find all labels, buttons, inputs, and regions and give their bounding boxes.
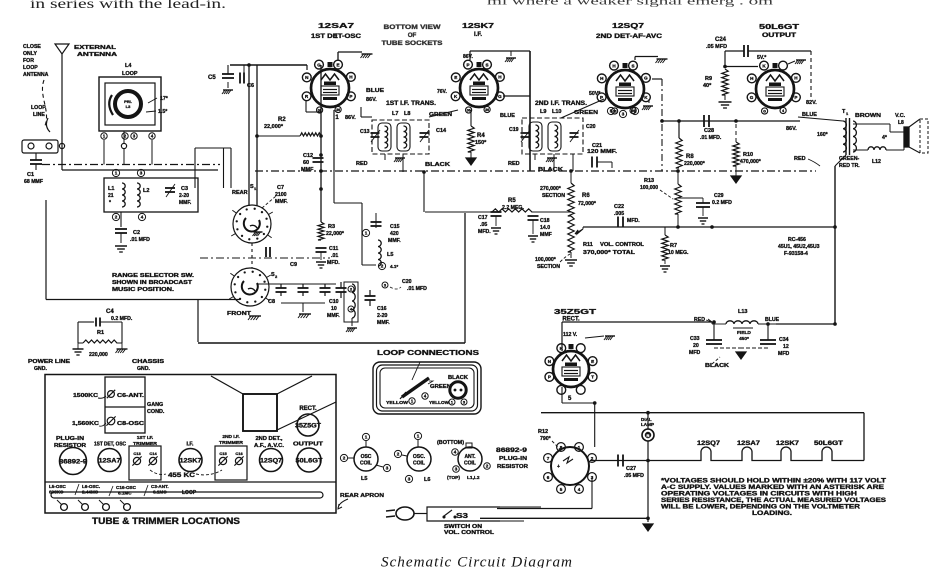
svg-text:RECT.: RECT. (299, 406, 317, 412)
svg-text:TRIMMER: TRIMMER (219, 440, 244, 446)
svg-text:420: 420 (390, 231, 399, 237)
svg-text:OPERATING VOLTAGES IN CIRCUITS: OPERATING VOLTAGES IN CIRCUITS WITH HIGH (661, 492, 857, 498)
svg-text:2: 2 (591, 456, 594, 461)
svg-text:S3: S3 (456, 513, 468, 520)
svg-text:BOTTOM VIEW: BOTTOM VIEW (384, 24, 442, 31)
svg-text:RED: RED (508, 161, 520, 167)
svg-text:L5-OSC: L5-OSC (49, 484, 67, 489)
svg-text:SHOWN IN BROADCAST: SHOWN IN BROADCAST (112, 280, 193, 286)
svg-text:G: G (750, 95, 754, 100)
svg-text:2: 2 (275, 274, 278, 279)
svg-text:.05 MFD: .05 MFD (706, 44, 727, 50)
svg-text:R2: R2 (278, 117, 286, 123)
svg-text:86V.: 86V. (366, 97, 377, 103)
svg-text:P: P (466, 62, 469, 67)
svg-text:R12: R12 (538, 429, 548, 435)
svg-text:K: K (560, 346, 564, 351)
svg-text:4*: 4* (882, 135, 888, 141)
svg-text:R1: R1 (97, 330, 104, 336)
svg-text:L6-OSC.: L6-OSC. (82, 484, 100, 489)
svg-text:5V.*: 5V.* (757, 55, 767, 61)
svg-text:C28: C28 (704, 128, 714, 134)
svg-text:ANTENNA: ANTENNA (23, 72, 49, 78)
svg-text:C10: C10 (329, 299, 339, 305)
svg-text:C14: C14 (436, 128, 447, 134)
svg-text:5: 5 (568, 396, 572, 402)
svg-text:G: G (763, 110, 766, 114)
svg-text:12SA7: 12SA7 (99, 457, 121, 464)
svg-text:OUTPUT: OUTPUT (762, 33, 796, 39)
svg-text:10: 10 (331, 306, 337, 312)
svg-text:C11: C11 (329, 246, 338, 252)
svg-text:.005: .005 (614, 211, 624, 217)
svg-text:1: 1 (365, 231, 368, 236)
svg-text:1.5*: 1.5* (158, 109, 168, 115)
svg-text:ONLY: ONLY (23, 51, 37, 57)
svg-text:5: 5 (610, 109, 613, 114)
svg-text:1: 1 (103, 134, 106, 139)
svg-text:C1: C1 (27, 172, 34, 178)
svg-text:L6: L6 (424, 477, 430, 483)
svg-text:3: 3 (133, 134, 136, 139)
svg-text:LOOP: LOOP (182, 490, 197, 496)
svg-text:T: T (591, 375, 594, 380)
svg-text:COIL: COIL (413, 461, 425, 467)
svg-text:BLUE: BLUE (366, 88, 384, 94)
svg-text:MFD.: MFD. (478, 229, 491, 235)
svg-text:MMF: MMF (540, 232, 552, 238)
svg-text:2: 2 (397, 452, 400, 457)
svg-text:1: 1 (411, 399, 414, 404)
svg-text:ANTENNA: ANTENNA (77, 52, 117, 58)
svg-text:MMF.: MMF. (275, 199, 288, 205)
svg-text:MFD.: MFD. (627, 218, 640, 224)
svg-text:120 MMF.: 120 MMF. (587, 149, 618, 155)
svg-text:CHASSIS: CHASSIS (132, 359, 165, 365)
svg-text:C7: C7 (277, 185, 284, 191)
svg-text:A-C SUPPLY. VALUES MARKED WITH: A-C SUPPLY. VALUES MARKED WITH AN ASTERI… (661, 485, 884, 491)
svg-text:1ST DET, OSC: 1ST DET, OSC (94, 442, 126, 448)
svg-text:MMF: MMF (301, 167, 314, 173)
svg-text:12: 12 (783, 344, 789, 350)
svg-text:4: 4 (454, 450, 457, 455)
svg-text:12SQ7: 12SQ7 (697, 441, 721, 447)
svg-text:C17: C17 (478, 215, 488, 221)
svg-text:L12: L12 (872, 159, 881, 165)
svg-text:86892-9: 86892-9 (59, 459, 88, 465)
svg-text:RESISTOR: RESISTOR (54, 443, 86, 449)
svg-text:R7: R7 (670, 243, 677, 249)
svg-text:86V.: 86V. (463, 54, 473, 60)
svg-text:R4: R4 (477, 133, 485, 139)
svg-text:8: 8 (560, 445, 563, 450)
svg-text:21: 21 (108, 193, 114, 199)
svg-text:2100: 2100 (275, 192, 287, 198)
svg-text:L13: L13 (738, 309, 747, 315)
svg-text:R11: R11 (583, 242, 593, 248)
svg-text:3: 3 (140, 171, 143, 176)
svg-text:12SA7: 12SA7 (737, 441, 761, 447)
svg-text:POWER LINE: POWER LINE (28, 359, 71, 365)
svg-text:.01: .01 (331, 253, 338, 259)
svg-text:E: E (336, 62, 339, 67)
svg-text:86V.: 86V. (345, 115, 356, 121)
svg-text:S: S (485, 62, 488, 67)
svg-text:1ST I.F. TRANS.: 1ST I.F. TRANS. (386, 101, 436, 107)
svg-text:2ND DET.,: 2ND DET., (256, 436, 284, 442)
svg-text:LOOP: LOOP (23, 65, 38, 71)
svg-text:C9: C9 (290, 262, 297, 268)
svg-text:C13: C13 (133, 451, 141, 456)
svg-text:TUBE & TRIMMER LOCATIONS: TUBE & TRIMMER LOCATIONS (92, 516, 240, 526)
svg-text:L4: L4 (125, 63, 132, 69)
svg-text:MFD: MFD (778, 351, 789, 357)
svg-text:2.44MC: 2.44MC (82, 490, 99, 495)
svg-text:GND.: GND. (137, 366, 151, 372)
svg-text:LOOP CONNECTIONS: LOOP CONNECTIONS (377, 348, 479, 357)
svg-text:2: 2 (350, 286, 353, 291)
svg-text:LINE: LINE (33, 112, 45, 118)
svg-text:RESISTOR: RESISTOR (497, 464, 528, 470)
svg-text:14.0: 14.0 (540, 225, 550, 231)
svg-text:OSC.: OSC. (413, 454, 426, 460)
svg-text:C20: C20 (402, 279, 412, 285)
svg-text:C27: C27 (626, 466, 636, 472)
svg-text:C33: C33 (690, 336, 700, 342)
svg-text:L1: L1 (108, 186, 114, 192)
svg-text:ANT.: ANT. (464, 454, 476, 460)
svg-text:K: K (644, 95, 648, 100)
svg-text:10 MEG.: 10 MEG. (668, 250, 689, 256)
svg-text:K: K (454, 94, 458, 99)
svg-text:.01 MFD: .01 MFD (407, 286, 427, 292)
svg-text:12SQ7: 12SQ7 (612, 21, 644, 30)
svg-text:REAR: REAR (232, 190, 248, 196)
svg-text:35Z5GT: 35Z5GT (554, 309, 597, 316)
svg-text:OUTPUT: OUTPUT (293, 442, 324, 448)
svg-text:RED: RED (794, 156, 806, 162)
svg-text:36: 36 (485, 108, 489, 112)
svg-text:H: H (612, 63, 616, 68)
svg-text:RED TR.: RED TR. (839, 163, 860, 169)
svg-text:R10: R10 (743, 152, 753, 158)
svg-text:RED: RED (356, 161, 368, 167)
svg-text:C12: C12 (303, 153, 313, 159)
svg-text:L2: L2 (143, 188, 149, 194)
svg-text:C22: C22 (614, 204, 624, 210)
svg-text:MFD.: MFD. (327, 260, 340, 266)
svg-text:C16-OSC: C16-OSC (116, 485, 137, 490)
svg-text:100,000*: 100,000* (535, 257, 557, 263)
svg-text:4: 4 (578, 487, 581, 492)
svg-text:C5: C5 (208, 75, 216, 81)
svg-text:FOR: FOR (23, 58, 34, 64)
svg-text:TUBE SOCKETS: TUBE SOCKETS (382, 40, 444, 47)
svg-text:L10: L10 (552, 109, 561, 115)
svg-text:1: 1 (115, 171, 118, 176)
svg-text:FRONT: FRONT (227, 311, 252, 317)
svg-text:4: 4 (782, 109, 784, 113)
svg-text:112 V.: 112 V. (563, 332, 578, 338)
svg-text:C20: C20 (586, 124, 596, 130)
svg-text:0.2 MFD.: 0.2 MFD. (111, 316, 133, 322)
svg-text:N: N (548, 359, 552, 364)
svg-text:SECTION: SECTION (537, 264, 560, 270)
svg-text:1: 1 (417, 434, 420, 439)
svg-text:1: 1 (335, 115, 339, 121)
svg-text:H: H (750, 76, 754, 81)
svg-text:50L6GT: 50L6GT (296, 457, 323, 464)
svg-text:76V.: 76V. (437, 89, 447, 95)
svg-text:I.F.: I.F. (187, 442, 194, 448)
svg-text:5: 5 (560, 487, 563, 492)
svg-text:L8: L8 (898, 120, 904, 126)
svg-text:220,000: 220,000 (89, 352, 108, 358)
svg-text:P: P (548, 375, 551, 380)
svg-text:L3: L3 (126, 104, 131, 109)
svg-text:(BOTTOM): (BOTTOM) (437, 440, 464, 446)
svg-text:E: E (591, 359, 594, 364)
svg-text:100,000: 100,000 (640, 185, 658, 191)
svg-text:.05 MFD: .05 MFD (624, 473, 644, 479)
svg-text:S: S (631, 63, 634, 68)
svg-text:3: 3 (622, 112, 625, 117)
svg-text:MMF.: MMF. (179, 200, 192, 206)
svg-text:1ST DET-OSC: 1ST DET-OSC (311, 34, 362, 40)
svg-text:270,000*: 270,000* (540, 186, 562, 192)
svg-text:GND.: GND. (34, 366, 48, 372)
svg-text:1: 1 (451, 399, 454, 404)
svg-text:H: H (498, 75, 502, 80)
svg-text:50V*: 50V* (589, 91, 601, 97)
svg-text:R5: R5 (508, 198, 516, 204)
svg-text:7: 7 (547, 456, 550, 461)
svg-text:V.C.: V.C. (895, 113, 906, 119)
svg-text:17*: 17* (160, 96, 169, 102)
svg-text:2: 2 (486, 464, 489, 469)
svg-text:FIELD: FIELD (737, 330, 751, 336)
svg-text:GANG: GANG (147, 402, 163, 408)
svg-text:72,000*: 72,000* (578, 201, 597, 207)
svg-text:P: P (794, 95, 797, 100)
svg-text:470,000*: 470,000* (740, 159, 762, 165)
svg-text:C4: C4 (106, 309, 114, 315)
svg-text:600KC: 600KC (49, 490, 64, 495)
svg-text:TRIMMER: TRIMMER (133, 441, 158, 447)
svg-text:P: P (349, 94, 352, 99)
svg-text:12SQ7: 12SQ7 (260, 457, 282, 464)
svg-text:6.1MC: 6.1MC (118, 491, 132, 496)
svg-text:BLACK: BLACK (448, 375, 468, 381)
svg-text:370,000* TOTAL: 370,000* TOTAL (583, 250, 636, 256)
svg-text:1500KC: 1500KC (73, 393, 98, 399)
svg-text:COIL: COIL (464, 461, 476, 467)
svg-text:R: R (647, 433, 650, 438)
svg-text:RANGE SELECTOR SW.: RANGE SELECTOR SW. (112, 273, 195, 279)
svg-text:F-93158-4: F-93158-4 (784, 251, 808, 257)
svg-text:35Z5GT: 35Z5GT (295, 423, 321, 429)
svg-text:C19: C19 (509, 127, 519, 133)
svg-text:4: 4 (151, 134, 154, 139)
svg-text:36: 36 (336, 108, 340, 112)
svg-text:2: 2 (343, 456, 346, 461)
svg-text:PLUG-IN: PLUG-IN (56, 436, 84, 442)
svg-text:C6: C6 (247, 83, 254, 89)
svg-text:H: H (794, 76, 798, 81)
svg-text:22,000*: 22,000* (326, 231, 345, 237)
svg-text:86892-9: 86892-9 (496, 448, 528, 454)
svg-text:R9: R9 (705, 76, 712, 82)
svg-text:BLUE: BLUE (500, 113, 515, 119)
svg-text:1,560KC: 1,560KC (72, 421, 99, 427)
svg-text:82V.: 82V. (806, 100, 817, 106)
svg-text:3: 3 (455, 467, 458, 472)
svg-text:6: 6 (547, 475, 550, 480)
svg-text:BROWN: BROWN (855, 113, 881, 119)
svg-text:12SK7: 12SK7 (776, 441, 800, 447)
svg-text:2-20: 2-20 (377, 313, 387, 319)
svg-text:R6: R6 (582, 193, 590, 199)
svg-text:CLOSE: CLOSE (23, 44, 41, 50)
svg-text:mi where a weaker signal emerg: mi where a weaker signal emerg . om (487, 0, 773, 8)
svg-text:12SA7: 12SA7 (318, 21, 354, 30)
svg-text:K: K (762, 63, 766, 68)
svg-text:C3-ANT.: C3-ANT. (151, 484, 169, 489)
svg-text:86V.: 86V. (786, 126, 797, 132)
svg-text:A.F., A.V.C.: A.F., A.V.C. (254, 443, 285, 449)
svg-text:50L6GT: 50L6GT (814, 441, 843, 447)
svg-text:H: H (349, 75, 353, 80)
svg-text:C16: C16 (377, 306, 387, 312)
svg-text:OF: OF (408, 32, 417, 39)
svg-text:Schematic Circuit Diagram: Schematic Circuit Diagram (381, 555, 573, 568)
svg-text:E: E (454, 75, 457, 80)
svg-text:R8: R8 (686, 154, 694, 160)
svg-text:160*: 160* (817, 132, 829, 138)
svg-text:I.F.: I.F. (474, 32, 482, 38)
svg-text:VOL. CONTROL: VOL. CONTROL (444, 530, 494, 536)
svg-text:in series with the lead-in.: in series with the lead-in. (30, 0, 226, 11)
svg-text:BLACK: BLACK (705, 363, 729, 369)
svg-text:YELLOW: YELLOW (386, 400, 409, 405)
svg-text:LOOP: LOOP (31, 105, 46, 111)
svg-text:LOADING.: LOADING. (752, 511, 792, 517)
svg-text:N: N (305, 75, 309, 80)
svg-text:*: * (109, 200, 111, 206)
svg-text:MFD: MFD (689, 350, 700, 356)
svg-text:VOL. CONTROL: VOL. CONTROL (600, 242, 645, 248)
svg-text:L5: L5 (387, 252, 393, 258)
svg-text:R: R (305, 94, 309, 99)
svg-text:22,000*: 22,000* (264, 124, 284, 130)
svg-text:C16: C16 (235, 451, 243, 456)
svg-text:450*: 450* (739, 336, 749, 342)
svg-text:2ND I.F. TRANS.: 2ND I.F. TRANS. (535, 101, 587, 107)
svg-text:L8: L8 (404, 111, 410, 117)
svg-text:MMF.: MMF. (327, 313, 340, 319)
svg-text:2ND DET-AF-AVC: 2ND DET-AF-AVC (596, 34, 663, 40)
svg-text:C6-ANT.: C6-ANT. (117, 393, 145, 399)
svg-text:1ST I.F.: 1ST I.F. (137, 435, 154, 441)
svg-text:C2: C2 (133, 230, 140, 236)
svg-text:68 MMF: 68 MMF (24, 179, 43, 185)
svg-text:60: 60 (303, 160, 309, 166)
svg-text:12SK7: 12SK7 (462, 21, 494, 30)
svg-text:3: 3 (386, 466, 389, 471)
svg-text:MUSIC POSITION.: MUSIC POSITION. (112, 287, 175, 293)
svg-text:REAR APRON: REAR APRON (340, 493, 384, 499)
svg-text:G: G (644, 76, 648, 81)
svg-text:2ND I.F.: 2ND I.F. (222, 434, 239, 440)
svg-text:12SK7: 12SK7 (180, 457, 202, 464)
svg-text:YELLOW: YELLOW (429, 400, 450, 405)
svg-text:C3: C3 (181, 186, 188, 192)
svg-text:BLACK: BLACK (425, 162, 450, 168)
svg-text:L1,L2: L1,L2 (467, 475, 480, 481)
svg-text:0.2 MFD: 0.2 MFD (712, 200, 732, 206)
svg-text:1: 1 (634, 109, 637, 114)
svg-text:45U1, 45U2,45U3: 45U1, 45U2,45U3 (778, 244, 820, 250)
svg-text:H: H (600, 76, 604, 81)
svg-text:1: 1 (365, 435, 368, 440)
svg-text:1: 1 (846, 111, 849, 116)
svg-text:6.1MC: 6.1MC (153, 490, 167, 495)
svg-text:C8-OSC: C8-OSC (117, 421, 144, 427)
svg-text:LOOP: LOOP (122, 71, 138, 77)
svg-text:L5: L5 (361, 476, 367, 482)
svg-text:SECTION: SECTION (542, 193, 565, 199)
svg-text:C13: C13 (360, 129, 370, 135)
svg-text:C15: C15 (219, 451, 227, 456)
svg-text:3: 3 (463, 399, 466, 404)
svg-text:.01 MFD.: .01 MFD. (700, 135, 722, 141)
svg-text:4: 4 (141, 215, 144, 220)
svg-text:C15: C15 (390, 224, 400, 230)
svg-text:.01 MFD: .01 MFD (130, 237, 150, 243)
svg-text:*VOLTAGES SHOULD HOLD WITHIN ±: *VOLTAGES SHOULD HOLD WITHIN ±20% WITH 1… (661, 479, 886, 485)
svg-text:L7: L7 (392, 111, 398, 117)
svg-text:SERIES RESISTANCE, THE ACTUAL: SERIES RESISTANCE, THE ACTUAL MEASURED V… (661, 498, 886, 504)
svg-text:L9: L9 (540, 109, 546, 115)
svg-text:4: 4 (424, 394, 427, 399)
svg-text:2-20: 2-20 (179, 193, 189, 199)
svg-text:.05: .05 (480, 222, 487, 228)
svg-text:+: + (557, 464, 560, 470)
svg-text:06: 06 (467, 109, 471, 113)
svg-text:WILL BE LOWER, DEPENDING ON TH: WILL BE LOWER, DEPENDING ON THE VOLTMETE… (661, 505, 861, 511)
svg-text:2: 2 (115, 215, 118, 220)
svg-text:RC-456: RC-456 (788, 237, 806, 243)
svg-text:MMF.: MMF. (388, 238, 401, 244)
svg-text:3: 3 (408, 477, 411, 482)
svg-text:20: 20 (693, 343, 699, 349)
svg-text:50L6GT: 50L6GT (759, 22, 800, 31)
svg-text:C34: C34 (779, 337, 789, 343)
svg-text:455 KC: 455 KC (168, 472, 195, 479)
svg-text:C18: C18 (540, 218, 550, 224)
svg-text:C29: C29 (714, 193, 724, 199)
svg-text:PLUG-IN: PLUG-IN (499, 456, 527, 462)
svg-text:R3: R3 (328, 224, 335, 230)
svg-text:OSC: OSC (361, 454, 372, 460)
svg-text:40*: 40* (703, 83, 712, 89)
svg-text:790*: 790* (540, 436, 552, 442)
svg-text:(TOP): (TOP) (447, 475, 460, 481)
svg-text:GREEN: GREEN (430, 384, 451, 390)
svg-text:BLACK: BLACK (538, 167, 563, 173)
svg-text:RED: RED (694, 317, 705, 323)
svg-text:1: 1 (578, 445, 581, 450)
